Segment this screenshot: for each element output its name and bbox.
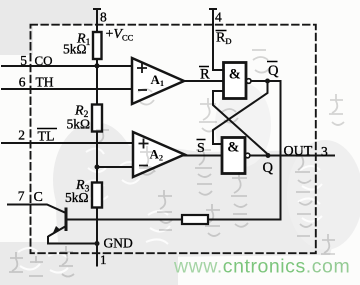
transistor Q1 (discharge) (48, 208, 66, 237)
wire G2 output / OUT line to pin3 (250, 155, 334, 157)
wire pin1 GND stub (96, 244, 98, 266)
wire R3 to GND node (96, 208, 98, 244)
svg-text:Q: Q (263, 160, 274, 176)
svg-text:www.cntronics.com: www.cntronics.com (173, 256, 350, 278)
svg-text:5kΩ: 5kΩ (67, 117, 91, 132)
wire base resistor run to Q1 base (67, 219, 281, 221)
NAND gate G2 (222, 138, 250, 174)
wire A2 output to G2 input (184, 155, 222, 157)
node Q-bar (265, 79, 270, 84)
svg-text:GND: GND (104, 236, 133, 251)
svg-text:4: 4 (215, 10, 222, 25)
svg-text:TL: TL (38, 130, 55, 145)
wire pin7 to Q1 collector (8, 205, 66, 214)
wire Q1 emitter to GND node (48, 237, 97, 244)
wire pin5 CO to A1 + input (2, 65, 132, 67)
wire R2 to R3 through node (96, 132, 98, 183)
svg-text:5: 5 (20, 53, 27, 68)
svg-text:6: 6 (19, 75, 26, 90)
IC package boundary (dashed) (31, 25, 316, 254)
wire Q-bar node down to base resistor (crosses OUT wire) (280, 81, 282, 220)
wire pin4 reset to G1 input (210, 9, 224, 70)
svg-text:7: 7 (18, 189, 25, 204)
op-amp A1 (132, 58, 184, 104)
wire pin6 TH to A1 - input (2, 88, 132, 90)
op-amp A2 (133, 132, 185, 177)
NAND gate G1 (224, 63, 252, 99)
wire R2-R3 node to A2 - input (97, 166, 133, 168)
svg-text:R: R (200, 67, 210, 83)
resistor R3 (92, 183, 102, 208)
wire pin8 Vcc stub (94, 9, 100, 34)
wire cross-couple Q-bar to G2 input (213, 81, 268, 144)
node GND (95, 241, 100, 246)
wire pin2 TL to A2 + input (2, 142, 133, 144)
svg-text:Q: Q (268, 63, 279, 79)
svg-text:C: C (34, 190, 43, 205)
svg-text:5kΩ: 5kΩ (63, 42, 87, 57)
svg-text:&: & (227, 140, 239, 156)
wire A1 output to G1 input (184, 80, 224, 82)
svg-text:3: 3 (321, 144, 328, 159)
svg-text:1: 1 (100, 252, 107, 267)
resistor base drive (182, 215, 208, 224)
svg-text:TH: TH (36, 75, 54, 90)
resistor R2 (92, 105, 102, 132)
resistor R1 (93, 32, 102, 59)
wire R1 to R2 through node (96, 58, 98, 105)
svg-text:&: & (229, 67, 241, 83)
wire cross-couple Q to G1 input (213, 91, 268, 155)
node R1-R2 / CO (95, 63, 100, 68)
svg-text:2: 2 (18, 128, 25, 143)
node R2-R3 (95, 165, 100, 170)
svg-text:5kΩ: 5kΩ (65, 190, 89, 205)
svg-text:CO: CO (35, 53, 53, 68)
svg-text:8: 8 (100, 10, 107, 25)
node Q / OUT (266, 153, 271, 158)
wire G1 output to Q-bar node (251, 80, 281, 82)
